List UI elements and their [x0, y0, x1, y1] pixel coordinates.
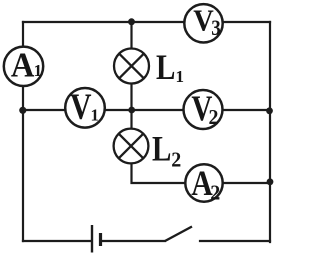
wire: left rail: [22, 22, 24, 241]
voltmeter V2: [184, 88, 223, 129]
wire: top rail: [23, 21, 270, 23]
wire: bottom from left corner to battery: [23, 240, 91, 242]
wire: right rail: [269, 22, 271, 242]
junction node: left rail / middle row: [19, 107, 26, 114]
ammeter A2: [185, 163, 222, 205]
switch S1: [165, 227, 192, 242]
label L2: [152, 129, 181, 172]
svg-text:1: 1: [176, 67, 185, 86]
voltmeter V1: [65, 87, 105, 128]
svg-text:2: 2: [171, 148, 181, 172]
svg-text:3: 3: [211, 15, 221, 40]
voltmeter V3: [184, 3, 222, 43]
junction node: middle row / right rail: [266, 107, 273, 114]
lamp L1: [114, 49, 149, 84]
wire: lamp column L2 down to A2 row: [132, 110, 271, 183]
svg-text:2: 2: [209, 105, 219, 129]
junction node: middle row / lamp column: [128, 107, 135, 114]
svg-text:2: 2: [210, 181, 220, 205]
svg-text:L: L: [152, 129, 171, 169]
wire: switch contact to right corner: [200, 240, 270, 242]
svg-text:V: V: [70, 87, 92, 128]
svg-text:L: L: [156, 47, 175, 87]
lamp L2: [114, 129, 149, 164]
junction node: top rail / L1 column: [128, 18, 135, 25]
wire: lamp column L1: [130, 22, 132, 110]
battery B1: [92, 225, 101, 253]
junction node: A2 row / right rail: [267, 178, 274, 185]
label L1: [156, 47, 184, 87]
svg-text:1: 1: [34, 61, 43, 80]
wire: middle row: [23, 109, 270, 111]
svg-text:1: 1: [91, 106, 100, 125]
ammeter A1: [4, 46, 43, 86]
wire: battery to switch: [101, 240, 165, 242]
svg-text:A: A: [11, 46, 35, 85]
